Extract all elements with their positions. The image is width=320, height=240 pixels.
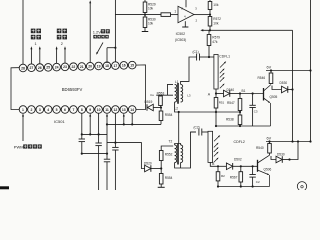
svg-text:T2: T2 [169, 139, 173, 143]
IC501 body [11, 65, 146, 110]
svg-text:5: 5 [56, 108, 58, 112]
svg-text:1.2V: 1.2V [93, 29, 102, 34]
svg-text:18: 18 [105, 64, 109, 68]
node B [217, 165, 219, 167]
wire pin13 down with arrow [123, 115, 125, 124]
node D520/R552/R554 [160, 167, 162, 169]
svg-text:27: 27 [30, 66, 34, 70]
svg-text:20: 20 [88, 65, 92, 69]
resistor R540 [269, 142, 271, 144]
resistor R537 (lamp1 sense) [215, 94, 217, 98]
wire pin12 down [114, 113, 116, 142]
capacitor C1 [196, 54, 198, 61]
svg-text:R547: R547 [227, 101, 235, 105]
dot R579 on lamp line [208, 56, 210, 58]
capacitor C530 [81, 134, 83, 139]
diode D519 [146, 104, 148, 111]
svg-text:24: 24 [55, 65, 59, 69]
feedback wire with left arrow [203, 29, 293, 31]
wire pin11 column continues [106, 124, 108, 159]
wire emitter return (upper) [216, 125, 271, 127]
bus line A (right) [292, 30, 294, 141]
svg-text:R546: R546 [258, 76, 266, 80]
node R572 bottom [209, 29, 211, 31]
label differential output 2 [57, 29, 62, 34]
node pin13 on lower line [123, 123, 125, 125]
svg-text:Q506: Q506 [264, 168, 272, 172]
capacitor C534 [114, 143, 116, 148]
resistor R2 (lamp2 sense) [217, 166, 219, 171]
svg-text:12: 12 [114, 108, 118, 112]
resistor R552 [159, 151, 163, 161]
transistor Q506 [257, 160, 259, 172]
svg-text:CDFL1: CDFL1 [219, 55, 230, 59]
svg-text:1: 1 [22, 108, 24, 112]
diode D540 [216, 93, 224, 95]
resistor R554 [160, 108, 162, 112]
transformer T2 loop to C2 [175, 132, 196, 168]
lamp CDFL1 rays [220, 62, 225, 67]
lamp CDFL2 rays [214, 136, 219, 141]
svg-text:B1: B1 [242, 89, 246, 93]
resistor R546 [270, 71, 272, 74]
wire to R571 [115, 14, 160, 16]
svg-text:14: 14 [130, 108, 134, 112]
node D519/R553/R554 [160, 106, 162, 108]
label differential output 1 [31, 29, 36, 34]
wire pin8 down [81, 113, 83, 134]
svg-text:R538: R538 [226, 118, 234, 122]
rail lower (caps) [82, 153, 107, 155]
resistor R554 lower [160, 169, 162, 174]
svg-text:IC502: IC502 [176, 32, 186, 36]
svg-text:1: 1 [34, 42, 36, 46]
svg-text:10k: 10k [213, 21, 219, 25]
transformer T2 windings [175, 145, 177, 163]
svg-text:R567: R567 [230, 175, 238, 179]
svg-text:D519: D519 [145, 100, 153, 104]
lamp CDFL1 [214, 55, 218, 90]
svg-text:26: 26 [38, 66, 42, 70]
svg-text:4: 4 [47, 108, 49, 112]
wire T1/T2 center feed [178, 111, 180, 113]
svg-text:R2: R2 [221, 174, 225, 178]
svg-text:D530: D530 [280, 81, 288, 85]
svg-text:23: 23 [63, 65, 67, 69]
wire pin18 stub [106, 48, 108, 63]
op-amp output wire [194, 14, 210, 16]
svg-text:(C1): (C1) [193, 50, 199, 54]
svg-text:D540: D540 [227, 88, 235, 92]
wire pin1 PWM arrow [22, 115, 24, 141]
svg-text:L1: L1 [175, 80, 179, 84]
wire pin9 down with arrow [89, 115, 91, 134]
wire R552 to T2 [161, 146, 173, 151]
node B1 [239, 92, 241, 94]
svg-text:47k: 47k [212, 40, 218, 44]
svg-text:11: 11 [105, 108, 109, 112]
connector symbol bottom right [297, 182, 306, 191]
svg-text:IC501: IC501 [54, 119, 65, 124]
resistor R547 [239, 94, 241, 99]
rail upper (caps) [82, 133, 107, 135]
wire T1 left winding top corner [168, 84, 174, 95]
svg-text:13: 13 [122, 108, 126, 112]
wire pin26 output arrow [39, 49, 41, 64]
svg-text:L3: L3 [187, 93, 191, 97]
svg-text:17: 17 [114, 64, 118, 68]
wire lamp2 to node B [210, 162, 218, 166]
svg-text:PWM: PWM [14, 145, 24, 150]
svg-text:R552: R552 [165, 152, 173, 156]
svg-text:R572: R572 [213, 17, 221, 21]
svg-text:R554: R554 [165, 113, 173, 117]
svg-text:15: 15 [130, 63, 134, 67]
wire R553 to T1 center tap [156, 94, 173, 96]
wire T1 right winding to C1 [181, 57, 197, 84]
resistor R571 [161, 13, 171, 17]
svg-text:C2: C2 [256, 180, 260, 184]
svg-text:6: 6 [64, 108, 66, 112]
svg-text:C3: C3 [254, 109, 258, 113]
svg-text:7: 7 [72, 108, 74, 112]
op-amp IC502 [178, 6, 194, 22]
svg-text:8: 8 [81, 108, 83, 112]
svg-text:21: 21 [80, 65, 84, 69]
svg-text:10k: 10k [213, 3, 219, 7]
svg-text:R540: R540 [256, 146, 264, 150]
wire pin27 output arrow [30, 49, 32, 64]
svg-text:2: 2 [30, 108, 32, 112]
capacitor C533 [104, 158, 110, 160]
svg-text:(IC503): (IC503) [175, 38, 186, 42]
svg-text:D520: D520 [144, 162, 152, 166]
svg-text:L2: L2 [175, 107, 179, 111]
diode D531 [271, 156, 276, 160]
capacitor C545 [252, 92, 254, 94]
svg-text:28: 28 [21, 66, 25, 70]
svg-text:Q505: Q505 [270, 95, 278, 99]
svg-text:CDFL2: CDFL2 [234, 140, 245, 144]
wire pin28 to top edge [22, 0, 24, 64]
wire pin14 down [131, 113, 133, 124]
resistor R553 [159, 96, 163, 106]
wire pin20 up with arrow [89, 3, 91, 63]
capacitor C531 [98, 134, 100, 143]
capacitor C542 [252, 165, 254, 167]
resistor 10k upper [209, 0, 211, 2]
svg-text:BD6593FV: BD6593FV [62, 87, 83, 92]
node A [215, 92, 217, 94]
wire pin10 down to bottom edge [98, 113, 100, 134]
transformer T1 windings [175, 84, 177, 102]
svg-text:(C2): (C2) [194, 125, 200, 129]
bus line B (far right) [310, 0, 312, 142]
resistor R567 [240, 165, 242, 167]
resistor R579 [208, 30, 210, 34]
IC501 pin circles top row 28..15 [19, 64, 27, 72]
diode D530 [272, 86, 282, 90]
svg-text:1: 1 [174, 9, 176, 13]
wire pin11 down with arrow [106, 115, 108, 124]
wire lamp1 to node A [215, 89, 217, 94]
diode D502 [218, 165, 226, 167]
svg-text:22: 22 [72, 65, 76, 69]
resistor R530 [143, 17, 147, 28]
ground R530 [142, 31, 149, 33]
svg-text:R51: R51 [219, 101, 225, 105]
svg-text:10k: 10k [148, 6, 154, 10]
capacitor C2 [198, 129, 200, 136]
diode D520 [145, 165, 151, 172]
wire pin23 output arrow [64, 49, 66, 64]
svg-text:10: 10 [97, 108, 101, 112]
svg-text:16: 16 [122, 64, 126, 68]
wire lower line from pin11 to R554 [107, 123, 161, 125]
ground R554 lower [158, 186, 165, 188]
svg-text:D530: D530 [277, 152, 285, 156]
transistor Q505 [263, 88, 265, 101]
transformer T1 return line [175, 102, 240, 112]
node R529/R530 [144, 14, 146, 16]
svg-text:R579: R579 [212, 35, 220, 39]
op-amp top pin wire [185, 0, 187, 7]
svg-text:3: 3 [39, 108, 41, 112]
IC501 pin circles bottom row 1..14 [19, 106, 27, 114]
wire B1 to Q505 base [240, 93, 264, 95]
annotation arrow 1.2V [97, 43, 103, 53]
wire pin17 up to top edge [114, 0, 116, 62]
wire 6V to D531 cathode [290, 142, 299, 160]
svg-text:Ua: Ua [150, 93, 154, 97]
lamp CDFL2 [191, 131, 196, 133]
svg-text:25: 25 [46, 66, 50, 70]
feed line to D520 [107, 143, 145, 169]
svg-text:6V: 6V [267, 65, 272, 69]
resistor R572 [209, 15, 211, 17]
svg-text:D502: D502 [234, 158, 242, 162]
resistor R538 [238, 115, 242, 125]
svg-text:6V: 6V [267, 136, 272, 140]
svg-text:R554: R554 [165, 176, 173, 180]
wire pin24 output arrow [56, 49, 58, 64]
page mark bottom left [0, 186, 9, 189]
op-amp bottom pin wire + ground [184, 21, 186, 26]
node pin11 lower line [106, 123, 108, 125]
svg-text:19: 19 [97, 64, 101, 68]
svg-text:10k: 10k [148, 21, 154, 25]
svg-text:2: 2 [61, 42, 63, 46]
svg-text:9: 9 [89, 108, 91, 112]
resistor R529 [144, 0, 146, 2]
lower return line [218, 186, 270, 188]
